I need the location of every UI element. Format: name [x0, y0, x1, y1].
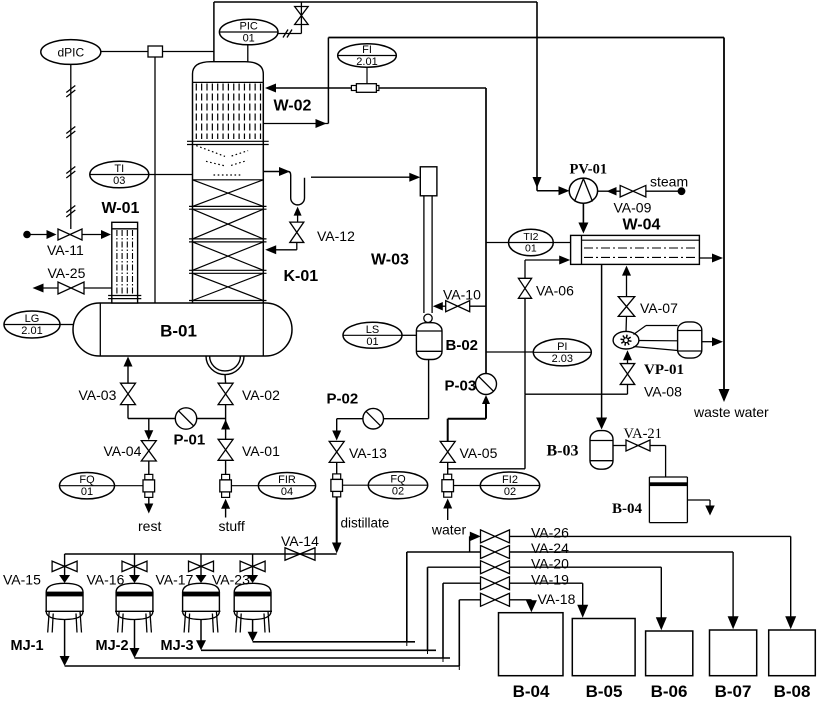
svg-text:VP-01: VP-01: [644, 362, 684, 378]
wire loop seal to VA-02: [224, 375, 227, 384]
flow element FE distillate: [333, 474, 341, 480]
wire VA-10 branch: [470, 305, 486, 307]
wire VA-01 to stuff element: [225, 460, 227, 474]
svg-text:VA-11: VA-11: [47, 242, 84, 258]
vacuum pump VP-01: [613, 331, 639, 349]
svg-text:waste water: waste water: [693, 404, 769, 420]
wire B-01 drain to VA-03: [124, 357, 133, 367]
valve VA-12: [290, 222, 304, 242]
valve VA-23: [240, 561, 265, 572]
svg-text:rest: rest: [138, 518, 161, 534]
wire VA-26 to B-08: [510, 535, 791, 537]
svg-text:VA-14: VA-14: [281, 533, 319, 549]
svg-text:2.01: 2.01: [356, 56, 377, 68]
svg-text:01: 01: [366, 336, 378, 348]
jar outlet wire: [64, 620, 66, 658]
wire water inlet: [443, 499, 452, 509]
valve VA-09: [620, 185, 646, 197]
svg-text:FI: FI: [362, 44, 372, 56]
valve VA-08: [620, 364, 635, 385]
packing bed 3: [193, 242, 264, 270]
instrument LG-2.01: [4, 311, 60, 338]
wire column side draw: [263, 171, 284, 173]
wire dPIC to junction box: [101, 51, 148, 53]
svg-text:B-04: B-04: [513, 682, 550, 701]
svg-text:VA-26: VA-26: [531, 525, 569, 541]
wire jar4 collect line: [253, 641, 415, 643]
valve VA-01: [218, 439, 233, 460]
control valve PV-01: [569, 178, 597, 203]
svg-text:W-01: W-01: [102, 200, 140, 217]
wire branch to VA-04: [148, 419, 150, 432]
svg-text:04: 04: [281, 486, 293, 498]
tank B-06: [646, 631, 693, 676]
bed boundary 1: [189, 205, 267, 207]
svg-text:VA-09: VA-09: [614, 200, 652, 216]
wire B-02 bottom to P-02: [428, 360, 430, 419]
svg-text:PI: PI: [557, 341, 567, 353]
valve VA-02: [218, 383, 233, 404]
svg-text:B-03: B-03: [547, 443, 579, 460]
wire junction down to B-01: [154, 57, 156, 303]
flow element FE rest: [145, 474, 153, 480]
valve VA-03: [121, 383, 136, 404]
wire W-04 drain to B-03: [601, 264, 603, 419]
svg-text:P-03: P-03: [445, 378, 477, 395]
pump P-02: [363, 408, 384, 429]
column K-01 dome: [193, 62, 264, 83]
wire VA-04 to rest element: [148, 461, 150, 474]
sight glass circle above B-02: [424, 314, 432, 322]
mill jar vessel MJ-3: [183, 583, 220, 592]
mill jar vessel MJ-4: [234, 583, 271, 592]
wire W-01 drain out: [84, 287, 112, 289]
flow element FE on cooling line: [351, 86, 356, 91]
svg-text:distillate: distillate: [341, 516, 390, 531]
wire VA-21 to B-04 pot: [650, 445, 666, 447]
mill jar vessel MJ-2: [116, 583, 153, 592]
svg-text:FIR: FIR: [278, 474, 296, 486]
tank B-05: [572, 619, 635, 676]
wire B-03 to VA-21: [613, 445, 626, 447]
wire VA-08 to VP-01: [623, 350, 632, 360]
tray boundary lines below W-02: [187, 140, 269, 142]
svg-text:B-04: B-04: [612, 501, 643, 517]
wire riser to VA-20: [428, 566, 481, 568]
wire riser to VA-19: [443, 582, 481, 584]
pump P-03: [476, 374, 497, 395]
tank B-04: [499, 613, 564, 676]
valve VA-07: [618, 297, 635, 317]
exchanger W-04: [571, 235, 700, 264]
column K-01 shell: [192, 82, 194, 303]
wire W-04 to VA-07: [622, 266, 631, 276]
condenser W-03 tube: [423, 196, 425, 313]
exchanger W-01 shell: [112, 222, 138, 303]
svg-text:FQ: FQ: [79, 474, 95, 486]
svg-text:PV-01: PV-01: [570, 162, 608, 178]
svg-text:VA-03: VA-03: [79, 387, 117, 403]
wire PIC to top valve: [278, 33, 301, 35]
svg-text:VA-06: VA-06: [536, 283, 574, 299]
svg-text:LS: LS: [366, 324, 379, 336]
tank B-07: [710, 630, 757, 676]
instrument FQ-01: [60, 473, 115, 499]
wire W-02 vapor out to W-04/waste header: [264, 123, 329, 125]
wire FIR tap: [232, 485, 259, 487]
valve VA-05: [440, 441, 455, 462]
wire P-01 to junction: [197, 418, 226, 420]
svg-text:steam: steam: [650, 174, 688, 190]
wire FQ-01 tap: [115, 485, 144, 487]
wire down to PV-01: [536, 2, 538, 191]
wire LG to B-01: [60, 324, 74, 326]
svg-text:dPIC: dPIC: [57, 45, 84, 59]
instrument FI2-02: [480, 472, 539, 499]
wire FI2 tap: [454, 485, 481, 487]
wire VA-13 to element: [336, 462, 338, 474]
svg-text:B-07: B-07: [715, 682, 752, 701]
vessel B-02: [416, 323, 442, 360]
svg-text:B-01: B-01: [160, 322, 197, 341]
svg-text:03: 03: [113, 175, 125, 187]
wire draw line to W-03: [311, 176, 414, 178]
wire waste water line down: [723, 38, 725, 401]
svg-text:TI2: TI2: [523, 231, 538, 243]
svg-text:VA-19: VA-19: [531, 572, 569, 588]
valve VA-17: [189, 561, 214, 572]
vessel B-01: [73, 303, 292, 356]
svg-text:VA-05: VA-05: [460, 445, 498, 461]
svg-text:B-02: B-02: [446, 337, 479, 354]
svg-text:stuff: stuff: [219, 518, 245, 534]
instrument FIR-04: [258, 473, 315, 499]
tank B-04 small: [649, 476, 687, 478]
wire VA-07 to VP-01: [625, 316, 628, 331]
svg-text:FQ: FQ: [390, 474, 406, 486]
instrument TI-03: [90, 161, 149, 188]
instrument dPIC: [41, 40, 101, 65]
svg-text:P-01: P-01: [174, 432, 206, 449]
svg-text:LG: LG: [25, 313, 40, 325]
bed boundary bottom: [189, 300, 267, 302]
wire riser to VA-24 and VA-26: [407, 551, 481, 553]
svg-text:MJ-1: MJ-1: [11, 638, 44, 654]
bed boundary 3: [189, 269, 267, 271]
svg-text:B-08: B-08: [774, 682, 811, 701]
svg-text:W-04: W-04: [623, 217, 661, 234]
valve VA-25: [58, 282, 84, 294]
valve VA-15: [52, 561, 77, 572]
valve VA-19: [481, 577, 510, 590]
condenser W-02 tubes: [195, 84, 197, 140]
svg-text:VA-08: VA-08: [644, 384, 682, 400]
svg-text:B-06: B-06: [651, 682, 688, 701]
svg-text:VA-25: VA-25: [48, 265, 86, 281]
wire mills feed header: [65, 553, 337, 555]
wire into PV-01: [537, 190, 562, 192]
instrument FQ-02: [368, 472, 427, 499]
wire branch to VA-06/VA-08: [448, 468, 525, 470]
junction box: [148, 46, 163, 57]
wire steam source: [646, 190, 678, 192]
svg-text:W-03: W-03: [371, 252, 409, 269]
wire riser to VA-18: [459, 599, 480, 601]
wire VA-05 to water element: [447, 462, 449, 474]
jar outlet wire: [134, 620, 136, 650]
valve stem to mill jar at x=134.5: [134, 554, 136, 576]
wire TI2 line from riser to W-04: [486, 242, 571, 244]
wire VA-02 to VA-01: [225, 405, 227, 440]
wire VA-20 to B-06: [510, 566, 662, 568]
wire cooling riser from P-03: [485, 88, 487, 374]
svg-text:01: 01: [243, 33, 255, 45]
wire VA-19 to B-05: [510, 582, 583, 584]
wire VA-03 to P-01: [127, 405, 129, 419]
wire rest outlet: [148, 498, 150, 505]
wire B-04 overflow: [687, 499, 710, 501]
valve stem to mill jar at x=252.6: [252, 554, 254, 576]
valve VA-18: [481, 593, 510, 606]
valve stem to mill jar at x=64.6: [64, 554, 66, 576]
valve VA-10: [446, 301, 470, 312]
svg-text:VA-07: VA-07: [640, 300, 678, 316]
svg-text:MJ-2: MJ-2: [96, 638, 129, 654]
svg-text:VA-18: VA-18: [538, 591, 576, 607]
wire VP-01 to separator pot: [634, 326, 647, 335]
bed boundary 2: [189, 238, 267, 240]
vessel B-03: [590, 431, 613, 470]
flow element FE stuff: [222, 474, 230, 480]
valve VA-26: [481, 530, 510, 543]
wire jar3 collect line: [201, 649, 436, 651]
wire P-03 suction: [482, 395, 490, 404]
wire VA-08 stem down: [627, 385, 629, 395]
valve VA-14: [285, 548, 315, 561]
valve VA-11: [58, 229, 82, 240]
separator pot: [678, 322, 702, 358]
valve VA-04: [141, 441, 156, 461]
valve VA-21: [626, 440, 650, 451]
svg-text:VA-04: VA-04: [104, 443, 142, 459]
svg-text:K-01: K-01: [284, 268, 319, 285]
mist distributor dots: [196, 146, 225, 157]
wire W-04 outlet to waste: [699, 257, 714, 259]
svg-text:P-02: P-02: [327, 391, 359, 408]
wire TI-03 to column: [148, 174, 192, 176]
wire VA-12 to column: [296, 243, 298, 250]
packing bed 4: [193, 273, 264, 300]
valve VA-16: [122, 561, 147, 572]
svg-text:02: 02: [392, 486, 404, 498]
svg-text:VA-24: VA-24: [531, 540, 569, 556]
wire pot to waste line: [702, 341, 714, 343]
svg-text:B-05: B-05: [586, 682, 623, 701]
wire jar2 collect line: [135, 657, 451, 659]
jar outlet wire: [252, 620, 254, 633]
wire inlet to W-01: [23, 231, 31, 239]
svg-text:TI: TI: [114, 163, 124, 175]
wire top header to right: [214, 1, 537, 3]
svg-text:MJ-3: MJ-3: [161, 638, 194, 654]
instrument TI2-01: [509, 229, 554, 256]
svg-text:VA-01: VA-01: [242, 443, 280, 459]
tank B-08: [769, 630, 816, 676]
instrument FI-2.01: [338, 44, 397, 67]
svg-text:FI2: FI2: [502, 474, 518, 486]
pump P-01: [175, 408, 196, 429]
wire cooling water to W-02 condenser: [271, 87, 486, 89]
wire U seal to VA-12: [294, 207, 302, 216]
packing bed 2: [193, 209, 264, 239]
wire steam to PV-01: [607, 187, 617, 196]
svg-text:02: 02: [504, 486, 516, 498]
wire P-02 to VA-13: [337, 418, 363, 420]
wire distillate drop: [336, 497, 338, 546]
svg-text:01: 01: [525, 243, 537, 255]
valve VA-06: [518, 278, 531, 298]
wire PIC stem to column dome: [247, 45, 249, 63]
wire PV-01 to W-04: [582, 203, 584, 224]
svg-text:W-02: W-02: [274, 98, 312, 115]
valve VA-20: [481, 561, 510, 574]
wire VA-18 to B-04: [510, 599, 532, 601]
wire FQ-02 tap: [343, 484, 369, 486]
wire junction to column nozzle: [163, 51, 214, 53]
wire LS to B-02: [402, 334, 416, 336]
svg-text:water: water: [431, 522, 467, 538]
valve VA-13: [329, 441, 344, 462]
B-01 bottom loop seal: [206, 356, 244, 375]
svg-text:VA-20: VA-20: [531, 556, 569, 572]
flow element FE water: [444, 474, 452, 480]
svg-text:01: 01: [81, 486, 93, 498]
svg-text:VA-23: VA-23: [212, 572, 250, 588]
wire FI stem: [366, 67, 368, 84]
svg-text:VA-12: VA-12: [317, 228, 355, 244]
svg-text:2.03: 2.03: [552, 353, 573, 365]
wire column top vapor riser: [213, 2, 215, 62]
instrument PI-2.03: [533, 339, 591, 366]
mill jar vessel MJ-1: [46, 583, 83, 592]
valve VA-24: [481, 546, 510, 559]
jar outlet wire: [200, 620, 202, 642]
wire VA-24 to B-07: [510, 551, 734, 553]
wire stuff inlet: [221, 499, 230, 509]
svg-text:VA-10: VA-10: [443, 287, 481, 303]
U seal tube: [288, 172, 305, 205]
svg-text:VA-16: VA-16: [87, 572, 125, 588]
condenser W-03 head: [420, 167, 437, 196]
svg-text:VA-02: VA-02: [242, 387, 280, 403]
instrument PIC-01: [219, 19, 278, 45]
svg-text:PIC: PIC: [240, 21, 258, 33]
svg-text:VA-15: VA-15: [3, 572, 41, 588]
svg-text:VA-13: VA-13: [349, 445, 387, 461]
svg-text:2.01: 2.01: [21, 325, 42, 337]
valve top vent: [295, 7, 309, 25]
packing bed 1: [193, 179, 264, 181]
instrument LS-01: [343, 322, 402, 348]
wire dPIC capillary down to VA-11: [70, 64, 72, 229]
wire PI branch: [486, 351, 533, 353]
wire jar1 collect line: [65, 665, 460, 667]
valve stem to mill jar at x=201: [200, 554, 202, 576]
svg-text:VA-21: VA-21: [624, 426, 662, 442]
wire VA-06 to W-04 inlet: [524, 260, 526, 278]
